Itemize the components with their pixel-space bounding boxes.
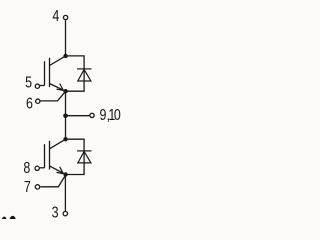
wire pin7 lead to node E2	[40, 175, 65, 187]
terminal 4	[63, 15, 67, 19]
svg-text:7: 7	[24, 179, 31, 197]
node E1 upper emitter junction	[63, 89, 67, 93]
diode D2 lower freewheel diode	[77, 151, 91, 163]
wire node C1 to diode D1 branch	[66, 56, 85, 91]
wire terminal4 to node C1	[65, 20, 67, 54]
node AC tap 9,10	[63, 114, 68, 119]
svg-text:3: 3	[52, 204, 59, 219]
node C2 lower collector junction	[63, 137, 67, 141]
pin label 9,10	[100, 107, 121, 125]
terminal 8	[35, 166, 39, 170]
svg-text:5: 5	[25, 74, 32, 92]
svg-text:8: 8	[23, 160, 30, 178]
wire gate lead pin5	[40, 85, 45, 87]
terminal 6	[36, 99, 40, 103]
transistor Q1 upper IGBT	[45, 56, 66, 91]
terminal 9,10	[90, 113, 94, 117]
svg-text:4: 4	[52, 8, 59, 26]
transistor Q2 lower IGBT	[45, 139, 66, 174]
terminal 3	[63, 211, 67, 215]
svg-text:6: 6	[26, 95, 33, 113]
wire node C2 to diode D2 branch	[66, 139, 85, 174]
svg-text:9: 9	[100, 107, 107, 125]
diode D1 upper freewheel diode	[77, 69, 91, 81]
terminal 5	[35, 84, 39, 88]
wire gate lead pin8	[40, 167, 45, 169]
node E2 lower emitter junction	[63, 172, 67, 176]
svg-text:0: 0	[114, 107, 121, 125]
wire node E2 to terminal 3	[64, 176, 66, 211]
node C1 upper collector junction	[63, 54, 67, 58]
terminal 7	[35, 185, 39, 189]
wire tap to node C2	[65, 116, 67, 139]
wire node E1 to AC tap	[65, 91, 67, 116]
wire pin6 lead to node E1	[40, 91, 65, 101]
corner artifact blobs	[2, 216, 16, 225]
wire tap to terminal 9,10	[66, 115, 90, 117]
